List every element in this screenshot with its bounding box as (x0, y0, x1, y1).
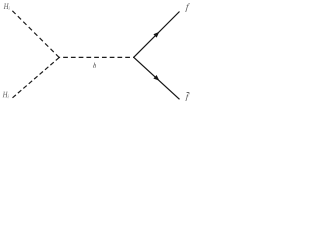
wire: scalar propagator h horizontal dashed line (59, 56, 134, 58)
wire: outgoing antifermion fbar solid line (134, 57, 180, 99)
label fbar (outgoing antifermion) (185, 93, 190, 103)
label H_i (top-left incoming scalar) (4, 4, 10, 10)
label h (scalar propagator) (93, 63, 96, 68)
arrowhead on antifermion fbar line (points down-right toward fbar) (153, 75, 159, 81)
wire: incoming scalar H_i top-left dashed line (12, 11, 59, 58)
wire: outgoing fermion f solid line (134, 12, 180, 58)
label H_i (bottom-left incoming scalar) (3, 92, 9, 98)
wire: incoming scalar H_i bottom-left dashed line (13, 58, 60, 98)
label f (outgoing fermion) (185, 3, 190, 12)
arrowhead on fermion f line (points up-right toward f) (153, 32, 159, 38)
